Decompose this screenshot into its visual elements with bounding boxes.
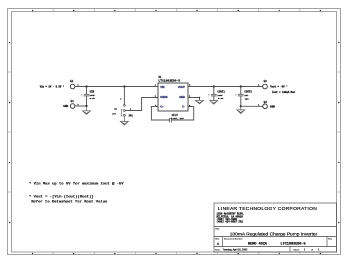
svg-text:VOUT: VOUT (178, 86, 185, 89)
wire VOUT rail (188, 86, 263, 88)
node E4/CIN junction (85, 105, 87, 107)
node GND corner (199, 97, 200, 98)
svg-text:LTC1983ES6-5: LTC1983ES6-5 (281, 242, 306, 246)
svg-text:JP1: JP1 (128, 114, 133, 117)
title block box (214, 203, 337, 252)
svg-text:E2: E2 (264, 80, 268, 83)
svg-text:Document Number: Document Number (224, 237, 243, 240)
svg-text:U1: U1 (158, 76, 162, 79)
svg-text:GND: GND (63, 105, 68, 108)
svg-text:Opt: Opt (245, 97, 250, 100)
svg-text:of: of (311, 249, 313, 251)
title block address (217, 213, 245, 224)
svg-text:* Vout = -[Vin-(Iout)(Rout)]: * Vout = -[Vin-(Iout)(Rout)] (29, 194, 94, 199)
terminal E1 (70, 80, 79, 89)
wire GND pin to ground (188, 98, 200, 101)
wire rail to JP1 pin1 (123, 87, 125, 105)
svg-text:Sheet: Sheet (294, 248, 300, 251)
svg-text:Tuesday, April 02, 2002: Tuesday, April 02, 2002 (223, 249, 249, 252)
capacitor COUT2 (235, 87, 253, 107)
wire C+ loop (151, 107, 169, 121)
wire input rail E1 to VIN (75, 86, 158, 88)
capacitor CIN (81, 87, 96, 107)
ground at COUT1 (210, 101, 218, 105)
terminal E2 (258, 80, 267, 89)
terminal E4 (63, 100, 79, 108)
svg-text:Vout = -5V *: Vout = -5V * (270, 86, 288, 89)
capacitor CFLY (170, 114, 185, 122)
jumper JP1 (112, 98, 133, 118)
svg-text:VIN: VIN (160, 86, 164, 89)
wire COUT2 to E3 (241, 105, 263, 107)
svg-text:DEMO 482A: DEMO 482A (248, 242, 268, 246)
node JP1 tap (123, 85, 125, 87)
node COUT1 tap (213, 85, 215, 87)
ground at U1 GND (196, 100, 204, 104)
node CIN tap (85, 85, 87, 87)
svg-text:6.3V: 6.3V (90, 97, 96, 100)
wire E4 to CIN bottom (75, 105, 87, 107)
node COUT2 bottom junction (240, 105, 242, 107)
terminal E3 (258, 101, 275, 109)
svg-text:Iout = 100mA Max: Iout = 100mA Max (272, 91, 296, 94)
svg-text:LINEAR TECHNOLOGY CORPORATION: LINEAR TECHNOLOGY CORPORATION (218, 206, 317, 212)
svg-text:LTC1983ES6-5: LTC1983ES6-5 (158, 80, 180, 83)
ground at COUT2 (237, 106, 245, 113)
wire C- loop (172, 107, 194, 121)
svg-text:C+: C+ (160, 106, 164, 109)
capacitor COUT1 (208, 87, 226, 101)
svg-text:C-: C- (182, 106, 185, 109)
wire JP1 pin2 to SHDN (125, 98, 158, 111)
svg-text:Refer to Datasheet for Rout Va: Refer to Datasheet for Rout Value (31, 199, 108, 204)
svg-text:Vin = 3V - 5.5V *: Vin = 3V - 5.5V * (40, 86, 65, 89)
svg-text:GND: GND (270, 105, 275, 108)
svg-text:Date:: Date: (215, 248, 221, 251)
op-amp U1 LTC1983ES6-5 body (158, 76, 188, 111)
svg-text:SHDN: SHDN (160, 96, 167, 99)
svg-text:E4: E4 (71, 100, 75, 103)
svg-text:100mA Regulated Charge Pump In: 100mA Regulated Charge Pump Inverter (230, 231, 318, 237)
svg-text:E3: E3 (264, 101, 268, 104)
svg-text:* Vin Max up to 6V for maximum: * Vin Max up to 6V for maximum Iout @ -5… (29, 182, 124, 187)
svg-text:(408) 434-0507 FAX: (408) 434-0507 FAX (217, 221, 244, 224)
ground at JP1 pin3 (120, 116, 128, 125)
svg-text:E1: E1 (70, 80, 74, 83)
ground at CIN (83, 106, 91, 114)
svg-text:GND: GND (179, 96, 185, 99)
svg-text:6.3V: 6.3V (218, 97, 224, 100)
node COUT2 tap (240, 85, 242, 87)
